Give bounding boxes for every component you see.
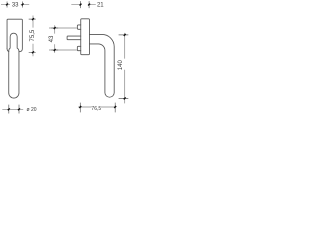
dim 21 line bbox=[71, 4, 96, 6]
blobs dim 75,5 bbox=[32, 18, 34, 53]
svg-text:140: 140 bbox=[118, 60, 124, 71]
svg-text:ø 20: ø 20 bbox=[27, 107, 37, 113]
blobs dim 43 bbox=[54, 27, 56, 51]
dim 43 line + extension lines bbox=[54, 25, 56, 53]
ticks dim 140 bbox=[119, 35, 129, 99]
blobs dim 140 bbox=[124, 34, 126, 99]
blobs dim 33 bbox=[6, 4, 23, 6]
rosette plate side bbox=[81, 19, 90, 55]
ticks dim 21 bbox=[81, 1, 90, 8]
tick marks: perpendicular stubs bbox=[7, 1, 128, 113]
svg-text:43: 43 bbox=[49, 35, 55, 42]
ticks dim 43 bbox=[51, 28, 58, 50]
lever neck + grip side outline bbox=[89, 34, 114, 97]
svg-text:33: 33 bbox=[12, 3, 19, 9]
screw boss upper bbox=[77, 25, 80, 29]
svg-text:75,5: 75,5 bbox=[30, 29, 36, 41]
ticks dim 33 bbox=[7, 2, 23, 8]
handle grip + neck front outline bbox=[9, 33, 19, 98]
blobs dim 21 bbox=[80, 4, 91, 6]
ticks dim 76,5 bbox=[80, 103, 115, 113]
rosette plate front outline bbox=[7, 19, 22, 52]
svg-text:21: 21 bbox=[97, 3, 104, 9]
tick oblique blobs bbox=[6, 4, 126, 111]
screw boss lower bbox=[77, 46, 80, 50]
svg-text:76,5: 76,5 bbox=[91, 106, 101, 112]
dim 33 line bbox=[1, 3, 29, 5]
dim 140 line bbox=[124, 33, 126, 104]
dim o20 line bbox=[2, 108, 23, 110]
ticks dim o20 bbox=[9, 105, 19, 114]
dim 76,5 line bbox=[78, 106, 116, 108]
rosette bottom-left merge bbox=[7, 49, 9, 52]
dim 75,5 line bbox=[32, 16, 34, 57]
blobs dim o20 bbox=[8, 108, 20, 110]
spindle bbox=[67, 36, 81, 40]
ticks dim 75,5 bbox=[29, 19, 36, 52]
blobs dim 76,5 bbox=[79, 106, 116, 108]
